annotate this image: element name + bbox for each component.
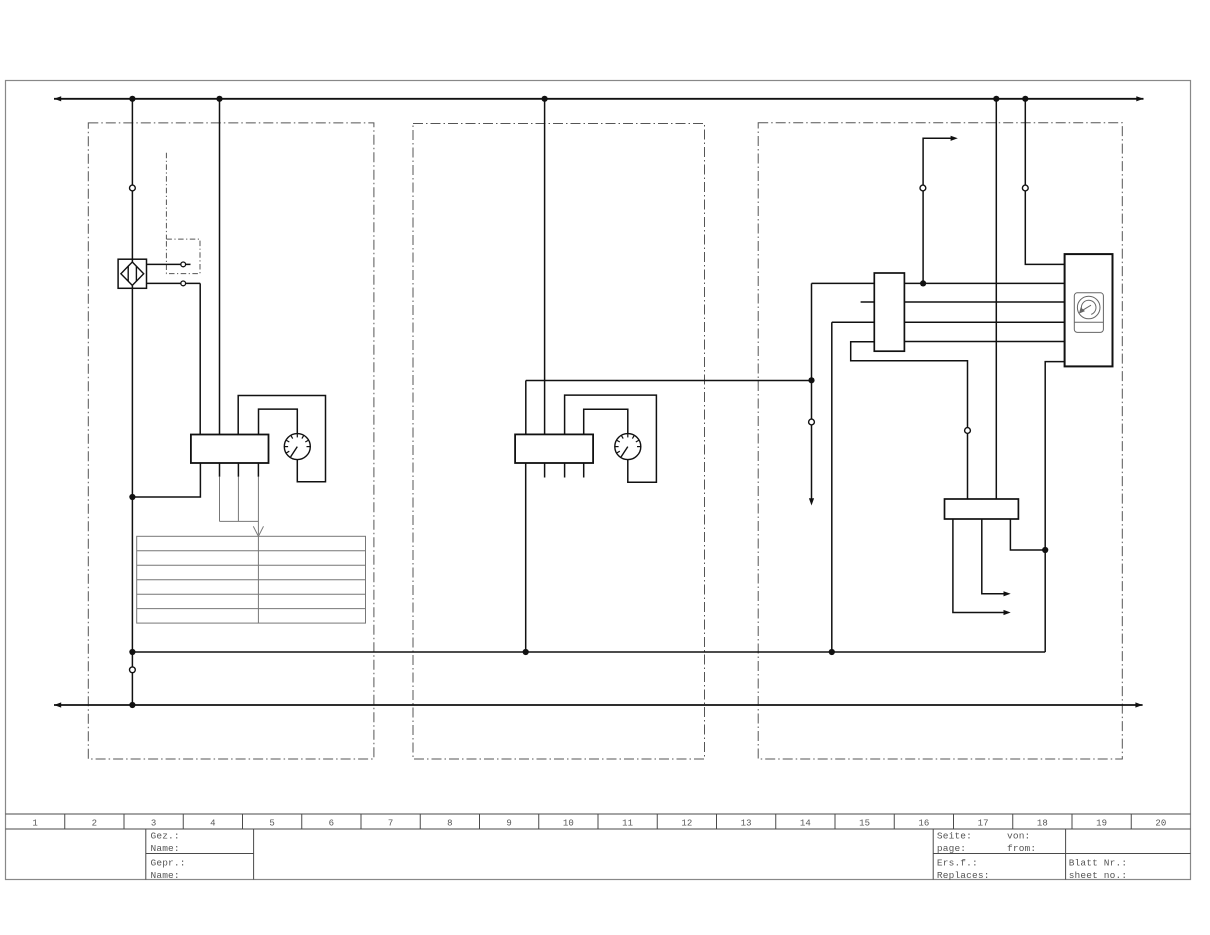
svg-text:Seite:: Seite: bbox=[937, 830, 972, 841]
svg-text:18: 18 bbox=[1037, 819, 1048, 829]
svg-text:14: 14 bbox=[800, 819, 811, 829]
svg-text:7: 7 bbox=[388, 819, 394, 829]
svg-text:page:: page: bbox=[937, 843, 966, 854]
svg-text:8: 8 bbox=[447, 819, 453, 829]
svg-text:Blatt Nr.:: Blatt Nr.: bbox=[1069, 858, 1128, 869]
svg-text:4: 4 bbox=[210, 819, 216, 829]
svg-text:Replaces:: Replaces: bbox=[937, 870, 990, 881]
svg-text:Name:: Name: bbox=[151, 870, 180, 881]
svg-text:10: 10 bbox=[563, 819, 574, 829]
svg-text:11: 11 bbox=[622, 819, 633, 829]
svg-text:von:: von: bbox=[1007, 830, 1030, 841]
svg-text:13: 13 bbox=[741, 819, 752, 829]
svg-text:Name:: Name: bbox=[151, 843, 180, 854]
svg-text:16: 16 bbox=[918, 819, 929, 829]
svg-text:sheet no.:: sheet no.: bbox=[1069, 870, 1128, 881]
svg-text:15: 15 bbox=[859, 819, 870, 829]
svg-text:Gepr.:: Gepr.: bbox=[151, 858, 186, 869]
svg-text:17: 17 bbox=[978, 819, 989, 829]
svg-text:from:: from: bbox=[1007, 843, 1036, 854]
svg-text:2: 2 bbox=[92, 819, 98, 829]
svg-text:6: 6 bbox=[329, 819, 335, 829]
svg-text:9: 9 bbox=[506, 819, 512, 829]
svg-text:3: 3 bbox=[151, 819, 157, 829]
svg-text:5: 5 bbox=[269, 819, 275, 829]
svg-text:Gez.:: Gez.: bbox=[151, 830, 180, 841]
svg-text:Ers.f.:: Ers.f.: bbox=[937, 858, 978, 869]
svg-text:1: 1 bbox=[32, 819, 38, 829]
svg-text:20: 20 bbox=[1155, 819, 1166, 829]
svg-text:12: 12 bbox=[681, 819, 692, 829]
svg-text:19: 19 bbox=[1096, 819, 1107, 829]
